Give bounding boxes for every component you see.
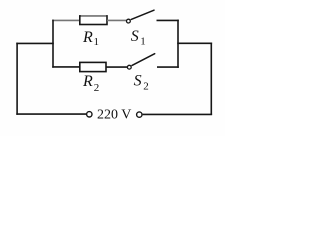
svg-text:1: 1	[140, 35, 146, 47]
svg-text:2: 2	[143, 81, 149, 93]
svg-text:R: R	[82, 29, 93, 46]
svg-text:S: S	[134, 72, 142, 89]
svg-text:220 V: 220 V	[97, 108, 131, 123]
svg-text:S: S	[131, 28, 139, 45]
svg-text:2: 2	[94, 82, 100, 94]
svg-text:1: 1	[94, 36, 100, 48]
svg-text:R: R	[82, 73, 93, 90]
